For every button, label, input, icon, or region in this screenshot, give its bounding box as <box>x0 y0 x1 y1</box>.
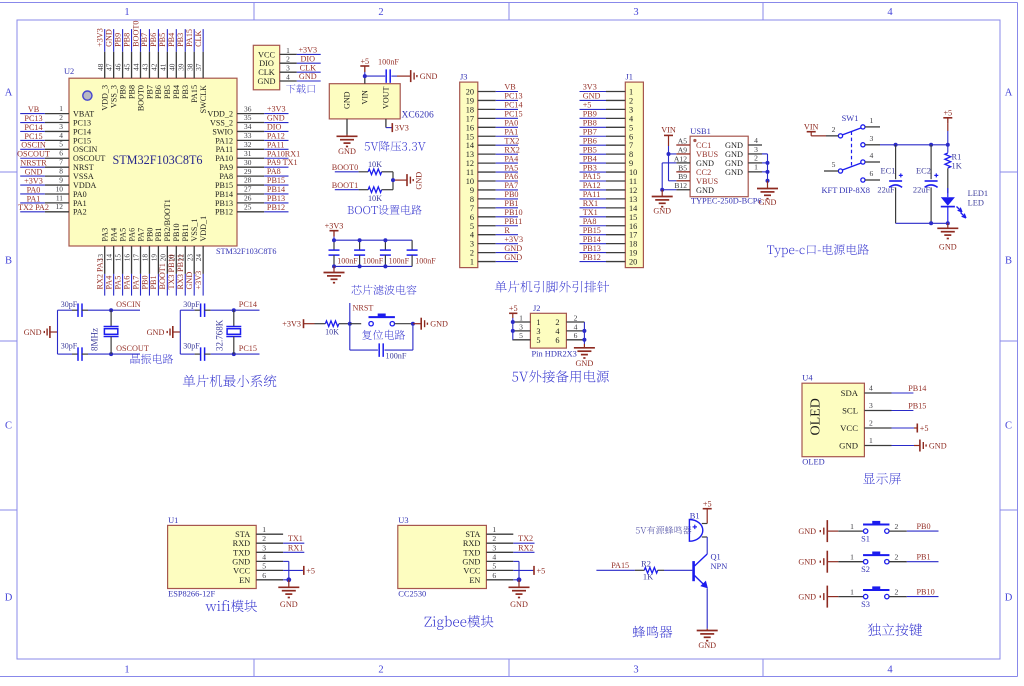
svg-text:VDD_2: VDD_2 <box>207 110 233 119</box>
capacitor 100nF #1 (filter) <box>329 240 359 266</box>
svg-text:GND: GND <box>420 72 438 81</box>
U2 pin 40 PB4 / net PB4 <box>167 29 181 99</box>
svg-text:PC15: PC15 <box>24 132 42 141</box>
U4 pin 3 SCL <box>842 401 891 416</box>
title 5V降压3.3V <box>365 141 426 152</box>
crystal 32.768K <box>226 310 241 354</box>
svg-text:10K: 10K <box>368 160 382 169</box>
J3 pin 19 / net PC13 <box>466 92 523 106</box>
svg-text:PA2: PA2 <box>73 208 87 217</box>
svg-text:+5: +5 <box>943 109 952 118</box>
J1 pin 5 / net PB8 <box>580 119 634 133</box>
U2 pin 21 PB10 / net TX3 PB10 <box>167 224 181 296</box>
svg-text:2: 2 <box>555 318 559 327</box>
svg-text:GND: GND <box>104 29 113 47</box>
U3 pin 4 GND <box>462 552 513 566</box>
svg-text:12: 12 <box>466 159 474 168</box>
svg-text:17: 17 <box>466 114 474 123</box>
svg-text:PB13: PB13 <box>583 244 601 253</box>
J3 pin 7 / net PB1 <box>470 199 519 213</box>
svg-text:CC1: CC1 <box>696 141 711 150</box>
capacitor EC2 22uF <box>913 145 938 224</box>
power VIN (SW1) <box>804 122 826 136</box>
svg-text:B9: B9 <box>678 172 687 181</box>
svg-text:100nF: 100nF <box>415 257 436 266</box>
wire GND to S2 <box>838 552 863 561</box>
U2 pin 9 VDDA / net +3V3 <box>20 175 96 190</box>
svg-text:PB3: PB3 <box>583 163 597 172</box>
svg-text:4: 4 <box>887 665 893 676</box>
svg-text:A: A <box>1005 88 1013 99</box>
svg-text:GND: GND <box>653 207 671 216</box>
U2 pin 17 PA7 / net PA7 <box>131 228 145 296</box>
svg-text:PB15: PB15 <box>908 402 926 411</box>
svg-text:4: 4 <box>869 383 873 392</box>
svg-text:PB1: PB1 <box>917 552 931 561</box>
svg-text:PB10: PB10 <box>504 208 522 217</box>
svg-text:10K: 10K <box>368 194 382 203</box>
svg-text:1: 1 <box>850 552 854 561</box>
svg-text:OSCOUT: OSCOUT <box>17 150 50 159</box>
U2 pin 44 BOOT0 / net BOOT0 <box>131 21 145 112</box>
USB1 pin A9 VBUS <box>676 145 718 159</box>
svg-text:GND: GND <box>725 141 743 150</box>
svg-text:OSCIN: OSCIN <box>73 145 97 154</box>
svg-text:15: 15 <box>114 254 123 262</box>
module U3 body <box>398 525 487 588</box>
J1 pin 10 / net PB3 <box>580 163 638 177</box>
svg-text:TX2: TX2 <box>518 534 533 543</box>
U2 pin 27 PB14 / net PB14 <box>215 185 289 199</box>
wire VOUT to 3V3 port <box>386 127 392 129</box>
J1 pin 7 / net PB6 <box>580 136 634 150</box>
svg-text:23: 23 <box>185 254 194 262</box>
power +5 (XC6206 input) <box>360 57 369 72</box>
J3 pin 20 / net VB <box>466 83 518 97</box>
crystal 8MHz <box>104 310 119 354</box>
svg-text:GND: GND <box>343 91 352 109</box>
svg-text:EC1: EC1 <box>881 167 896 176</box>
wire USB1 right GND rail <box>762 154 768 181</box>
svg-text:B: B <box>5 256 12 267</box>
svg-text:4: 4 <box>286 72 290 81</box>
resistor R1 1K <box>945 145 962 193</box>
svg-text:PA11: PA11 <box>267 140 285 149</box>
net label TX2 <box>513 534 534 543</box>
designator J3 <box>460 73 467 82</box>
J1 pin 11 / net PA15 <box>580 172 638 186</box>
U3 pin 1 STA <box>465 525 513 539</box>
J1 pin 2 / net GND <box>580 92 634 106</box>
svg-text:GND: GND <box>504 253 522 262</box>
svg-text:PB3: PB3 <box>181 85 190 99</box>
svg-text:34: 34 <box>244 122 252 131</box>
wire bottom rail (EC1-LED) <box>896 222 948 224</box>
junction USB1 right pin3 <box>766 161 770 165</box>
net label RX1 <box>283 543 304 552</box>
title 晶振电路 <box>131 354 174 364</box>
svg-text:STM32F103C8T6: STM32F103C8T6 <box>216 247 277 256</box>
svg-text:PA5: PA5 <box>113 276 122 290</box>
svg-text:5: 5 <box>59 140 63 149</box>
svg-text:VB: VB <box>504 83 516 92</box>
svg-text:PA5: PA5 <box>118 228 127 242</box>
U2 pin 37 SWCLK / net CLK <box>194 29 208 113</box>
LED LED1 <box>941 188 966 223</box>
SW1 pin1 stub <box>865 116 880 127</box>
svg-text:45: 45 <box>123 63 132 71</box>
U2 pin 11 PA1 / net PA1 <box>20 193 86 208</box>
svg-text:GND: GND <box>338 147 356 156</box>
svg-text:D: D <box>5 593 13 604</box>
designator LED1 <box>968 189 988 198</box>
ground GND (USB1 right) <box>757 181 778 207</box>
svg-text:47: 47 <box>105 63 114 71</box>
capacitor EC1 22uF <box>877 145 902 224</box>
svg-text:+5: +5 <box>360 57 369 66</box>
svg-text:6: 6 <box>574 331 578 340</box>
svg-text:5: 5 <box>492 561 496 570</box>
SW1 pin4 stub <box>865 151 880 162</box>
net label OSCOUT <box>116 344 149 353</box>
svg-text:7: 7 <box>59 158 63 167</box>
title 5V外接备用电源 <box>512 370 609 382</box>
display U4 OLED body <box>802 383 864 457</box>
svg-text:TX1: TX1 <box>288 534 303 543</box>
svg-text:6: 6 <box>492 571 496 580</box>
svg-text:PB8: PB8 <box>127 85 136 99</box>
svg-text:OSCOUT: OSCOUT <box>73 154 105 163</box>
wire capacitor to GND port <box>391 75 410 77</box>
svg-text:2: 2 <box>895 587 899 596</box>
junction VIN/VBUS <box>667 152 671 156</box>
J1 pin 18 / net PB14 <box>580 235 638 249</box>
title 复位电路 <box>362 330 405 340</box>
svg-text:PC14: PC14 <box>73 127 91 136</box>
svg-text:GND: GND <box>415 172 424 190</box>
svg-text:10: 10 <box>56 184 64 193</box>
svg-text:26: 26 <box>244 194 252 203</box>
svg-text:PB14: PB14 <box>583 235 601 244</box>
svg-text:STA: STA <box>235 530 250 539</box>
wire VCC pin5 to +5 (U3) <box>513 566 545 575</box>
svg-text:17: 17 <box>629 231 637 240</box>
svg-text:PB15: PB15 <box>583 226 601 235</box>
svg-text:PB3: PB3 <box>176 33 185 47</box>
svg-text:GND: GND <box>698 641 716 650</box>
wire VIN to VBUS A9 <box>669 146 677 154</box>
svg-text:36: 36 <box>244 104 252 113</box>
part name Pin HDR2X3 <box>532 350 577 359</box>
svg-text:1: 1 <box>869 436 873 445</box>
wire NRST node to button <box>350 323 361 325</box>
svg-text:PA10RX1: PA10RX1 <box>267 149 300 158</box>
svg-text:PB1: PB1 <box>149 275 158 289</box>
U2 pin 3 PC14 / net PC14 <box>20 122 91 137</box>
power +3V3 (filter caps) <box>325 222 344 241</box>
svg-text:GND: GND <box>929 441 947 450</box>
resistor 10K (BOOT0) <box>359 160 393 175</box>
svg-text:PB10: PB10 <box>917 587 935 596</box>
J1 pin 19 / net PB13 <box>580 244 638 258</box>
svg-text:VCC: VCC <box>463 566 481 575</box>
net label PB1 <box>917 552 931 561</box>
svg-text:30pF: 30pF <box>61 300 78 309</box>
svg-text:EC2: EC2 <box>916 167 931 176</box>
svg-text:16: 16 <box>629 222 637 231</box>
ground GND (USB1 left) <box>652 190 673 216</box>
chip U2 STM32F103C8T6 body <box>69 78 237 246</box>
J2 pin 4 (right) <box>555 322 584 336</box>
svg-text:3: 3 <box>870 134 874 143</box>
title 蜂鸣器 <box>633 626 673 638</box>
svg-text:17: 17 <box>132 254 141 262</box>
svg-text:32.768K: 32.768K <box>215 319 225 351</box>
wire GND to S1 <box>838 522 863 531</box>
U1 pin 3 TXD <box>233 543 283 557</box>
wire emitter to GND <box>706 588 708 628</box>
svg-text:A12: A12 <box>674 154 687 163</box>
svg-text:43: 43 <box>141 63 150 71</box>
net label PB10 <box>917 587 935 596</box>
svg-text:4: 4 <box>262 552 266 561</box>
svg-text:2: 2 <box>378 665 383 676</box>
USB1 pin B5 CC2 <box>676 163 711 177</box>
svg-text:35: 35 <box>244 113 252 122</box>
U2 pin 10 PA0 / net PA0 <box>20 184 86 199</box>
svg-text:PB14: PB14 <box>215 190 233 199</box>
U2 pin 2 PC13 / net PC13 <box>20 113 91 128</box>
svg-text:30pF: 30pF <box>183 342 200 351</box>
svg-text:10: 10 <box>629 168 637 177</box>
svg-text:TXD: TXD <box>233 548 250 557</box>
svg-text:RX1: RX1 <box>583 199 598 208</box>
svg-text:U3: U3 <box>398 516 408 525</box>
svg-text:18: 18 <box>629 240 637 249</box>
wire VIN node to capacitor <box>365 75 385 77</box>
svg-text:1: 1 <box>470 258 474 267</box>
svg-text:2: 2 <box>59 113 63 122</box>
svg-text:41: 41 <box>158 63 167 71</box>
svg-text:PA1: PA1 <box>504 127 518 136</box>
svg-text:S2: S2 <box>861 565 870 574</box>
svg-text:27: 27 <box>244 185 252 194</box>
svg-text:PA12: PA12 <box>583 181 601 190</box>
XC6206 pin GND <box>343 91 352 134</box>
svg-text:PA6: PA6 <box>127 228 136 242</box>
svg-text:VBAT: VBAT <box>73 110 94 119</box>
svg-text:XC6206: XC6206 <box>402 111 434 121</box>
svg-text:1: 1 <box>124 7 129 18</box>
power 3V3 (XC6206 output) <box>392 123 409 132</box>
svg-text:GND: GND <box>280 600 298 609</box>
svg-text:28: 28 <box>244 176 252 185</box>
U3 pin 6 EN <box>469 571 513 585</box>
svg-text:8: 8 <box>470 195 474 204</box>
svg-text:13: 13 <box>466 150 474 159</box>
svg-text:6: 6 <box>555 336 559 345</box>
J1 pin 6 / net PB7 <box>580 127 634 141</box>
svg-text:PC15: PC15 <box>73 136 91 145</box>
svg-text:PB12: PB12 <box>583 253 601 262</box>
svg-text:PA11: PA11 <box>583 190 601 199</box>
net label BOOT0 <box>332 163 359 172</box>
svg-text:9: 9 <box>470 186 474 195</box>
svg-text:GND: GND <box>185 272 194 290</box>
power GND (OLED) <box>892 440 947 452</box>
svg-text:PB1: PB1 <box>154 228 163 242</box>
svg-text:PB1: PB1 <box>504 199 518 208</box>
svg-text:9: 9 <box>59 175 63 184</box>
svg-text:+3V3: +3V3 <box>298 46 317 55</box>
net label PB0 <box>917 522 931 531</box>
svg-text:PB9: PB9 <box>583 110 597 119</box>
wire GND pin4 loop (U1) <box>283 561 289 579</box>
U2 pin 42 PB6 / net PB6 <box>149 29 163 99</box>
svg-text:DIO: DIO <box>301 54 316 63</box>
svg-text:TYPEC-250D-BCP6: TYPEC-250D-BCP6 <box>691 197 762 206</box>
svg-text:42: 42 <box>150 63 159 71</box>
J3 pin 14 / net TX2 <box>466 136 520 150</box>
svg-text:11: 11 <box>629 177 637 186</box>
label 5V有源蜂鸣器 <box>636 526 692 534</box>
svg-text:OSCIN: OSCIN <box>21 141 46 150</box>
title 芯片滤波电容 <box>351 285 416 295</box>
svg-text:VDD_3: VDD_3 <box>101 85 110 111</box>
svg-text:8MHz: 8MHz <box>90 328 100 351</box>
svg-text:19: 19 <box>150 254 159 262</box>
U2 pin 35 VSS_2 / net GND <box>210 113 288 127</box>
svg-text:PB6: PB6 <box>583 136 597 145</box>
part name OLED <box>802 458 824 467</box>
svg-text:GND: GND <box>798 593 816 602</box>
USB1 pin B9 VBUS <box>676 172 718 186</box>
svg-text:18: 18 <box>141 254 150 262</box>
USB1 pin 3 GND (right) <box>725 145 762 159</box>
svg-text:VIN: VIN <box>361 90 370 105</box>
U2 pin 31 PA10 / net PA10RX1 <box>215 149 300 163</box>
J2 pin 1 (left) <box>512 313 540 327</box>
svg-text:GND: GND <box>725 150 743 159</box>
svg-text:VSS_2: VSS_2 <box>210 118 233 127</box>
svg-text:DIO: DIO <box>267 122 282 131</box>
svg-text:BOOT0: BOOT0 <box>332 163 358 172</box>
module U1 body <box>168 525 257 588</box>
wire GND to S3 <box>838 587 863 596</box>
J3 pin 3 / net +3V3 <box>470 235 523 249</box>
wire GND A12 to B12 <box>662 163 676 190</box>
svg-text:4: 4 <box>59 131 63 140</box>
download port pin 4 GND / net GND <box>258 72 321 86</box>
svg-text:3: 3 <box>633 7 638 18</box>
power +5 (J2) <box>509 304 518 318</box>
svg-text:R: R <box>504 226 510 235</box>
svg-text:1: 1 <box>124 665 129 676</box>
svg-text:30: 30 <box>244 158 252 167</box>
svg-text:RX2: RX2 <box>504 145 519 154</box>
svg-text:3: 3 <box>869 401 873 410</box>
svg-text:2: 2 <box>832 125 836 134</box>
U2 pin 1 VBAT / net VB <box>20 104 94 119</box>
wire EN pin6 (U1) <box>283 579 289 581</box>
svg-text:PA9 TX1: PA9 TX1 <box>267 158 298 167</box>
svg-text:25: 25 <box>244 203 252 212</box>
wire crystal left rail <box>57 310 59 354</box>
svg-text:18: 18 <box>466 105 474 114</box>
net label NRST <box>350 303 374 324</box>
U2 pin 26 PB13 / net PB13 <box>215 194 289 208</box>
svg-text:PB15: PB15 <box>267 176 285 185</box>
svg-text:PB5: PB5 <box>163 85 172 99</box>
svg-text:VIN: VIN <box>804 122 819 131</box>
svg-text:6: 6 <box>470 213 474 222</box>
resistor 10K (reset) <box>315 321 350 337</box>
svg-text:+5: +5 <box>583 101 592 110</box>
svg-text:C: C <box>1005 421 1012 432</box>
U2 pin 5 OSCIN / net OSCIN <box>20 140 97 155</box>
junction EC2 top <box>929 143 933 147</box>
svg-text:PB0: PB0 <box>917 522 931 531</box>
J3 pin 5 / net PB11 <box>470 217 522 231</box>
svg-text:3: 3 <box>633 665 638 676</box>
svg-text:1: 1 <box>850 587 854 596</box>
junction J2 pin3 <box>511 329 515 333</box>
U2 pin 8 VSSA / net GND <box>20 167 94 182</box>
svg-text:VSS_3: VSS_3 <box>109 85 118 108</box>
svg-text:DIO: DIO <box>259 59 274 68</box>
U2 pin 36 VDD_2 / net +3V3 <box>207 104 288 118</box>
download port pin 1 VCC / net +3V3 <box>258 46 321 60</box>
svg-text:PA12: PA12 <box>215 136 233 145</box>
svg-text:2: 2 <box>262 534 266 543</box>
svg-text:GND: GND <box>504 244 522 253</box>
junction J2 pin6 <box>582 338 586 342</box>
junction EN/GND (U3) <box>517 577 522 582</box>
svg-text:VSSA: VSSA <box>73 172 94 181</box>
U2 pin 30 PA9 / net PA9 TX1 <box>219 158 297 172</box>
svg-text:B5: B5 <box>678 163 687 172</box>
svg-text:GND: GND <box>24 328 42 337</box>
svg-text:24: 24 <box>194 254 203 262</box>
svg-text:1K: 1K <box>643 573 653 582</box>
svg-text:PB9: PB9 <box>113 33 122 47</box>
svg-text:PA0: PA0 <box>27 185 41 194</box>
svg-text:STA: STA <box>465 530 480 539</box>
svg-text:12: 12 <box>56 202 64 211</box>
push button (reset) <box>369 314 413 326</box>
svg-text:4: 4 <box>574 322 578 331</box>
title Type-c口-电源电路 <box>767 244 869 257</box>
USB1 pin A12 GND <box>674 154 714 168</box>
J1 pin 20 / net PB12 <box>580 253 638 267</box>
svg-text:PA15: PA15 <box>185 29 194 47</box>
value 32.768K <box>215 319 225 351</box>
svg-text:J1: J1 <box>626 73 633 82</box>
part value STM32F103C8T6 (inside U2) <box>112 153 202 167</box>
svg-text:48: 48 <box>96 63 105 71</box>
svg-text:J3: J3 <box>460 73 467 82</box>
USB1 pin 4 GND (right) <box>725 136 762 150</box>
svg-text:TX1: TX1 <box>583 208 598 217</box>
svg-text:BOOT1: BOOT1 <box>332 181 358 190</box>
svg-text:U2: U2 <box>64 67 74 76</box>
wire filter top rail <box>334 239 412 241</box>
wire S1 to net PB0 <box>889 522 939 531</box>
svg-text:GND: GND <box>267 114 285 123</box>
svg-text:PB0: PB0 <box>145 228 154 242</box>
svg-text:2: 2 <box>895 552 899 561</box>
svg-text:TX2: TX2 <box>504 136 519 145</box>
